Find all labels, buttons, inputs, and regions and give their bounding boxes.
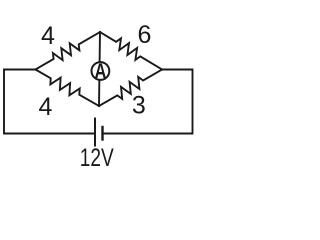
svg-text:6: 6 <box>138 21 152 49</box>
svg-text:4: 4 <box>39 93 53 121</box>
svg-text:A: A <box>95 60 107 83</box>
svg-text:3: 3 <box>132 92 146 120</box>
svg-text:12V: 12V <box>80 144 114 172</box>
svg-text:4: 4 <box>41 22 55 50</box>
